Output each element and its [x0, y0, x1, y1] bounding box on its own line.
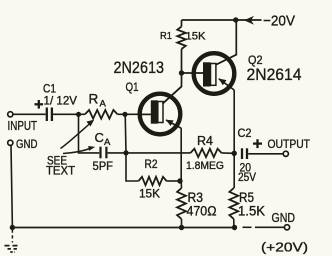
-20V supply arrowhead [244, 16, 254, 25]
svg-text:R2: R2 [145, 159, 158, 171]
svg-text:TEXT: TEXT [46, 165, 75, 177]
C2 polarity plus sign [253, 142, 262, 144]
wire: GND terminal down to rail [11, 145, 12, 227]
earth ground symbol (dashed) [5, 230, 21, 253]
resistor RA zigzag [85, 110, 118, 119]
transistor Q1 (2N2613) [140, 87, 182, 135]
wire: Q2 collector to -20V rail [216, 20, 236, 65]
node: R3 to rail [179, 225, 184, 230]
node: C1/RA/CA junction [76, 112, 81, 117]
svg-text:R1: R1 [160, 30, 172, 42]
node: rail left corner [10, 225, 15, 230]
resistor R2 zigzag [139, 177, 167, 185]
resistor R3 zigzag [177, 188, 186, 219]
wire: R3 top lead [180, 181, 182, 188]
node: Q2 base / Q1 collector junction [179, 70, 184, 75]
terminal: GND (output side) [284, 225, 289, 230]
terminal: INPUT [8, 112, 13, 117]
svg-text:A: A [100, 99, 107, 110]
wire: RA to Q1 base [118, 113, 141, 115]
wire: input to C1 [13, 113, 46, 115]
wire: C2 to output terminal [248, 153, 283, 155]
wire: dashed rail segment to GND terminal [243, 226, 252, 228]
wire: R5 bottom lead [233, 219, 235, 228]
svg-text:−20V: −20V [263, 13, 295, 30]
svg-text:(+20V): (+20V) [261, 240, 308, 255]
node: R2/R3/Q1-emitter junction [177, 178, 182, 183]
wire: CA to R4 (base node line) [108, 152, 191, 154]
capacitor C2 [241, 148, 243, 159]
svg-text:1.5K: 1.5K [238, 204, 265, 219]
svg-text:1/ 12V: 1/ 12V [44, 93, 78, 107]
transistor Q2 (2N2614) [194, 53, 235, 94]
svg-text:OUTPUT: OUTPUT [268, 137, 311, 151]
see-text arrow to RA [61, 123, 92, 149]
wire: Q2 emitter down to output node [233, 90, 235, 188]
wire: bottom ground rail [12, 227, 237, 229]
wire: CA branch from RA-left node [79, 114, 100, 153]
svg-text:470Ω: 470Ω [187, 204, 217, 219]
svg-text:25V: 25V [238, 172, 256, 184]
resistor R1 zigzag [177, 27, 185, 50]
wire: R1 bottom to Q2 base node [181, 49, 183, 73]
svg-text:C2: C2 [238, 126, 252, 140]
node: R5 to rail [232, 225, 237, 230]
wire: C1 to RA [53, 113, 85, 115]
capacitor CA [99, 147, 101, 159]
node: collector wire joins rail [233, 17, 238, 22]
svg-text:R: R [89, 92, 99, 107]
C1 polarity plus sign [35, 103, 44, 105]
svg-text:2N2613: 2N2613 [114, 58, 165, 77]
terminal: OUTPUT [283, 151, 288, 156]
svg-text:15K: 15K [139, 187, 160, 201]
node: RA/Q1-base/R2 junction [122, 112, 127, 117]
svg-text:R4: R4 [197, 134, 213, 148]
svg-text:INPUT: INPUT [8, 119, 38, 133]
wire: R2 left leads [126, 153, 139, 181]
svg-text:2N2614: 2N2614 [247, 65, 302, 84]
svg-text:15K: 15K [186, 30, 207, 42]
svg-text:C: C [95, 130, 104, 145]
wire: Q1 base node down to CA/R2 line [124, 114, 127, 153]
node: R4/C2/R5 output junction [232, 151, 237, 156]
wire: R3 bottom lead [181, 219, 183, 228]
wire: -20V top rail [182, 19, 262, 21]
svg-text:GND: GND [16, 137, 38, 151]
terminal: GND (input side) [8, 140, 13, 145]
node: base-node / R2 top junction [123, 150, 128, 155]
resistor R4 zigzag [191, 149, 222, 157]
svg-text:GND: GND [272, 211, 296, 225]
wire: Q2 base lead [182, 72, 204, 74]
resistor R5 zigzag [229, 188, 238, 219]
wire: junction down to Q1 collector [163, 73, 182, 104]
svg-text:1.8MEG: 1.8MEG [186, 160, 224, 172]
see-text arrow to CA [63, 149, 90, 154]
wire: Q1 emitter down to R2/R3 node [180, 128, 182, 181]
capacitor C1 [46, 108, 48, 122]
svg-text:5PF: 5PF [93, 161, 114, 173]
svg-text:Q1: Q1 [126, 80, 139, 94]
wire: rail to R1 top lead [181, 20, 183, 27]
wire: R4 right lead [222, 152, 235, 154]
wire: R2 right lead [167, 180, 181, 182]
svg-text:A: A [104, 137, 111, 148]
